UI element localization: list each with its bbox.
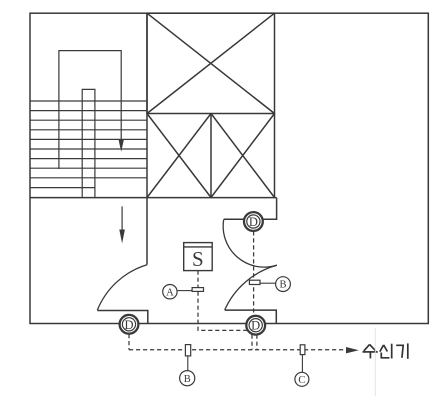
svg-text:D: D [249, 215, 258, 229]
svg-text:A: A [166, 287, 174, 298]
svg-text:B: B [279, 280, 286, 291]
svg-text:D: D [124, 318, 133, 332]
svg-text:S: S [192, 247, 204, 271]
svg-text:C: C [298, 375, 305, 386]
svg-text:D: D [251, 319, 260, 333]
svg-text:B: B [184, 374, 191, 385]
